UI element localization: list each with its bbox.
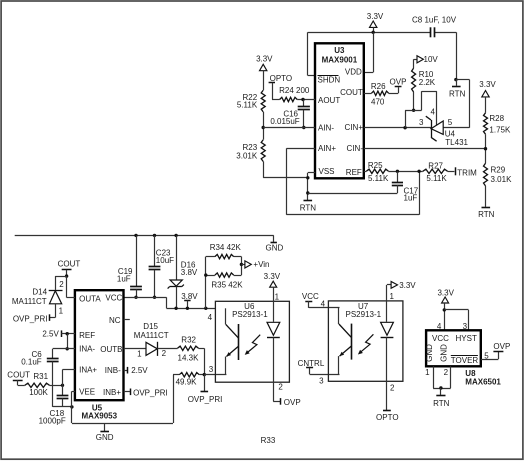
svg-text:2.5V: 2.5V <box>131 366 148 375</box>
svg-text:PS2913-1: PS2913-1 <box>232 310 268 319</box>
svg-text:RTN: RTN <box>478 210 495 219</box>
svg-text:1: 1 <box>137 350 142 359</box>
svg-text:R25: R25 <box>368 161 383 170</box>
svg-text:MAX9053: MAX9053 <box>82 412 118 421</box>
svg-text:AOUT: AOUT <box>318 96 340 105</box>
svg-text:2: 2 <box>444 368 449 377</box>
svg-text:2: 2 <box>162 349 167 358</box>
svg-text:U3: U3 <box>334 46 345 55</box>
svg-text:OVP_PRI: OVP_PRI <box>188 395 223 404</box>
svg-text:OPTO: OPTO <box>376 413 399 422</box>
svg-text:3.3V: 3.3V <box>264 272 281 281</box>
svg-text:0.1uF: 0.1uF <box>21 358 42 367</box>
svg-text:OUTB: OUTB <box>100 345 122 354</box>
svg-text:U4: U4 <box>445 130 456 139</box>
svg-text:1: 1 <box>59 306 64 315</box>
svg-text:REF: REF <box>346 168 362 177</box>
svg-text:3.01K: 3.01K <box>236 152 258 161</box>
svg-text:OUTA: OUTA <box>79 294 101 303</box>
svg-text:SHDN: SHDN <box>318 75 341 84</box>
svg-text:1: 1 <box>275 292 280 301</box>
svg-text:COUT: COUT <box>340 88 363 97</box>
svg-text:NC: NC <box>109 316 121 325</box>
svg-text:1: 1 <box>389 292 394 301</box>
svg-text:3.3V: 3.3V <box>399 281 416 290</box>
svg-text:1000pF: 1000pF <box>39 417 66 426</box>
svg-text:1.75K: 1.75K <box>489 126 511 135</box>
svg-text:5: 5 <box>484 351 489 360</box>
svg-text:2: 2 <box>390 383 395 392</box>
svg-text:GND: GND <box>425 344 434 362</box>
svg-text:R32: R32 <box>181 336 196 345</box>
svg-text:3.01K: 3.01K <box>491 175 513 184</box>
svg-text:3.8V: 3.8V <box>181 292 198 301</box>
svg-text:GND: GND <box>266 244 284 253</box>
svg-text:INA+: INA+ <box>79 366 97 375</box>
svg-text:R24 200: R24 200 <box>279 86 310 95</box>
svg-text:VCC: VCC <box>302 292 319 301</box>
svg-text:MA111CT: MA111CT <box>12 297 47 306</box>
svg-text:3.3V: 3.3V <box>367 12 384 21</box>
svg-text:R33: R33 <box>261 436 276 445</box>
svg-text:4: 4 <box>321 300 326 309</box>
svg-text:5.11K: 5.11K <box>426 174 447 183</box>
svg-text:TL431: TL431 <box>445 138 468 147</box>
svg-text:VSS: VSS <box>319 167 335 176</box>
svg-text:PS2913-1: PS2913-1 <box>346 310 382 319</box>
svg-text:14.3K: 14.3K <box>178 354 200 363</box>
svg-text:OVP_PRI: OVP_PRI <box>133 388 168 397</box>
svg-text:OVP: OVP <box>284 398 301 407</box>
svg-text:R28: R28 <box>489 114 504 123</box>
svg-text:CIN-: CIN- <box>347 144 364 153</box>
svg-text:RTN: RTN <box>300 204 317 213</box>
svg-text:OPTO: OPTO <box>270 74 293 83</box>
svg-text:GND: GND <box>439 344 448 362</box>
svg-text:INB+: INB+ <box>103 388 121 397</box>
svg-text:COUT: COUT <box>58 259 81 268</box>
svg-text:VCC: VCC <box>432 334 449 343</box>
svg-text:RTN: RTN <box>433 399 450 408</box>
svg-text:3.3V: 3.3V <box>437 289 454 298</box>
svg-text:4: 4 <box>430 108 435 117</box>
svg-text:TOVER: TOVER <box>451 356 479 365</box>
svg-text:0.015uF: 0.015uF <box>270 117 299 126</box>
svg-text:REF: REF <box>79 331 95 340</box>
svg-text:5: 5 <box>448 118 453 127</box>
svg-text:R31: R31 <box>33 372 48 381</box>
svg-text:MA111CT: MA111CT <box>134 331 169 340</box>
svg-text:AIN+: AIN+ <box>318 144 336 153</box>
svg-text:3.3V: 3.3V <box>479 80 496 89</box>
svg-text:3: 3 <box>419 118 424 127</box>
svg-text:OVP_PRI: OVP_PRI <box>13 315 48 324</box>
svg-text:10uF: 10uF <box>156 256 174 265</box>
svg-text:RTN: RTN <box>449 90 466 99</box>
svg-text:TRIM: TRIM <box>457 169 477 178</box>
svg-text:MAX9001: MAX9001 <box>322 55 358 64</box>
svg-text:3.3V: 3.3V <box>256 55 273 64</box>
svg-text:470: 470 <box>371 98 385 107</box>
svg-text:COUT: COUT <box>7 371 30 380</box>
svg-text:CIN+: CIN+ <box>345 123 364 132</box>
svg-text:10V: 10V <box>424 55 439 64</box>
svg-text:VCC: VCC <box>105 294 122 303</box>
svg-text:5.11K: 5.11K <box>368 174 389 183</box>
svg-text:VDD: VDD <box>345 68 362 77</box>
svg-text:2.5V: 2.5V <box>42 329 59 338</box>
svg-text:D14: D14 <box>32 288 47 297</box>
svg-text:D15: D15 <box>143 322 158 331</box>
svg-text:R35 42K: R35 42K <box>211 281 243 290</box>
svg-text:1uF: 1uF <box>404 193 418 202</box>
svg-text:GND: GND <box>96 433 114 442</box>
svg-text:2.2K: 2.2K <box>419 78 436 87</box>
svg-text:3: 3 <box>209 365 214 374</box>
svg-text:4: 4 <box>437 322 442 331</box>
svg-text:C8 1uF, 10V: C8 1uF, 10V <box>412 15 457 24</box>
svg-text:3: 3 <box>319 376 324 385</box>
svg-text:49.9K: 49.9K <box>176 377 198 386</box>
svg-text:INA-: INA- <box>79 345 95 354</box>
svg-text:2: 2 <box>59 280 64 289</box>
svg-text:3: 3 <box>463 322 468 331</box>
svg-text:AIN-: AIN- <box>318 124 334 133</box>
svg-text:MAX6501: MAX6501 <box>465 377 501 386</box>
svg-text:2: 2 <box>278 383 283 392</box>
svg-text:OVP: OVP <box>390 77 407 86</box>
svg-text:3.8V: 3.8V <box>181 268 198 277</box>
svg-text:1uF: 1uF <box>117 274 131 283</box>
svg-text:R26: R26 <box>371 82 386 91</box>
svg-text:100K: 100K <box>29 388 48 397</box>
svg-text:VEE: VEE <box>79 388 95 397</box>
svg-text:1: 1 <box>425 368 430 377</box>
svg-text:4: 4 <box>208 313 213 322</box>
svg-text:5.11K: 5.11K <box>237 101 258 110</box>
svg-text:R29: R29 <box>491 166 506 175</box>
svg-text:HYST: HYST <box>456 334 477 343</box>
svg-text:OVP: OVP <box>493 342 510 351</box>
svg-text:INB-: INB- <box>105 366 121 375</box>
svg-text:+Vin: +Vin <box>253 260 269 269</box>
svg-text:R34 42K: R34 42K <box>210 243 242 252</box>
svg-text:R27: R27 <box>428 161 443 170</box>
